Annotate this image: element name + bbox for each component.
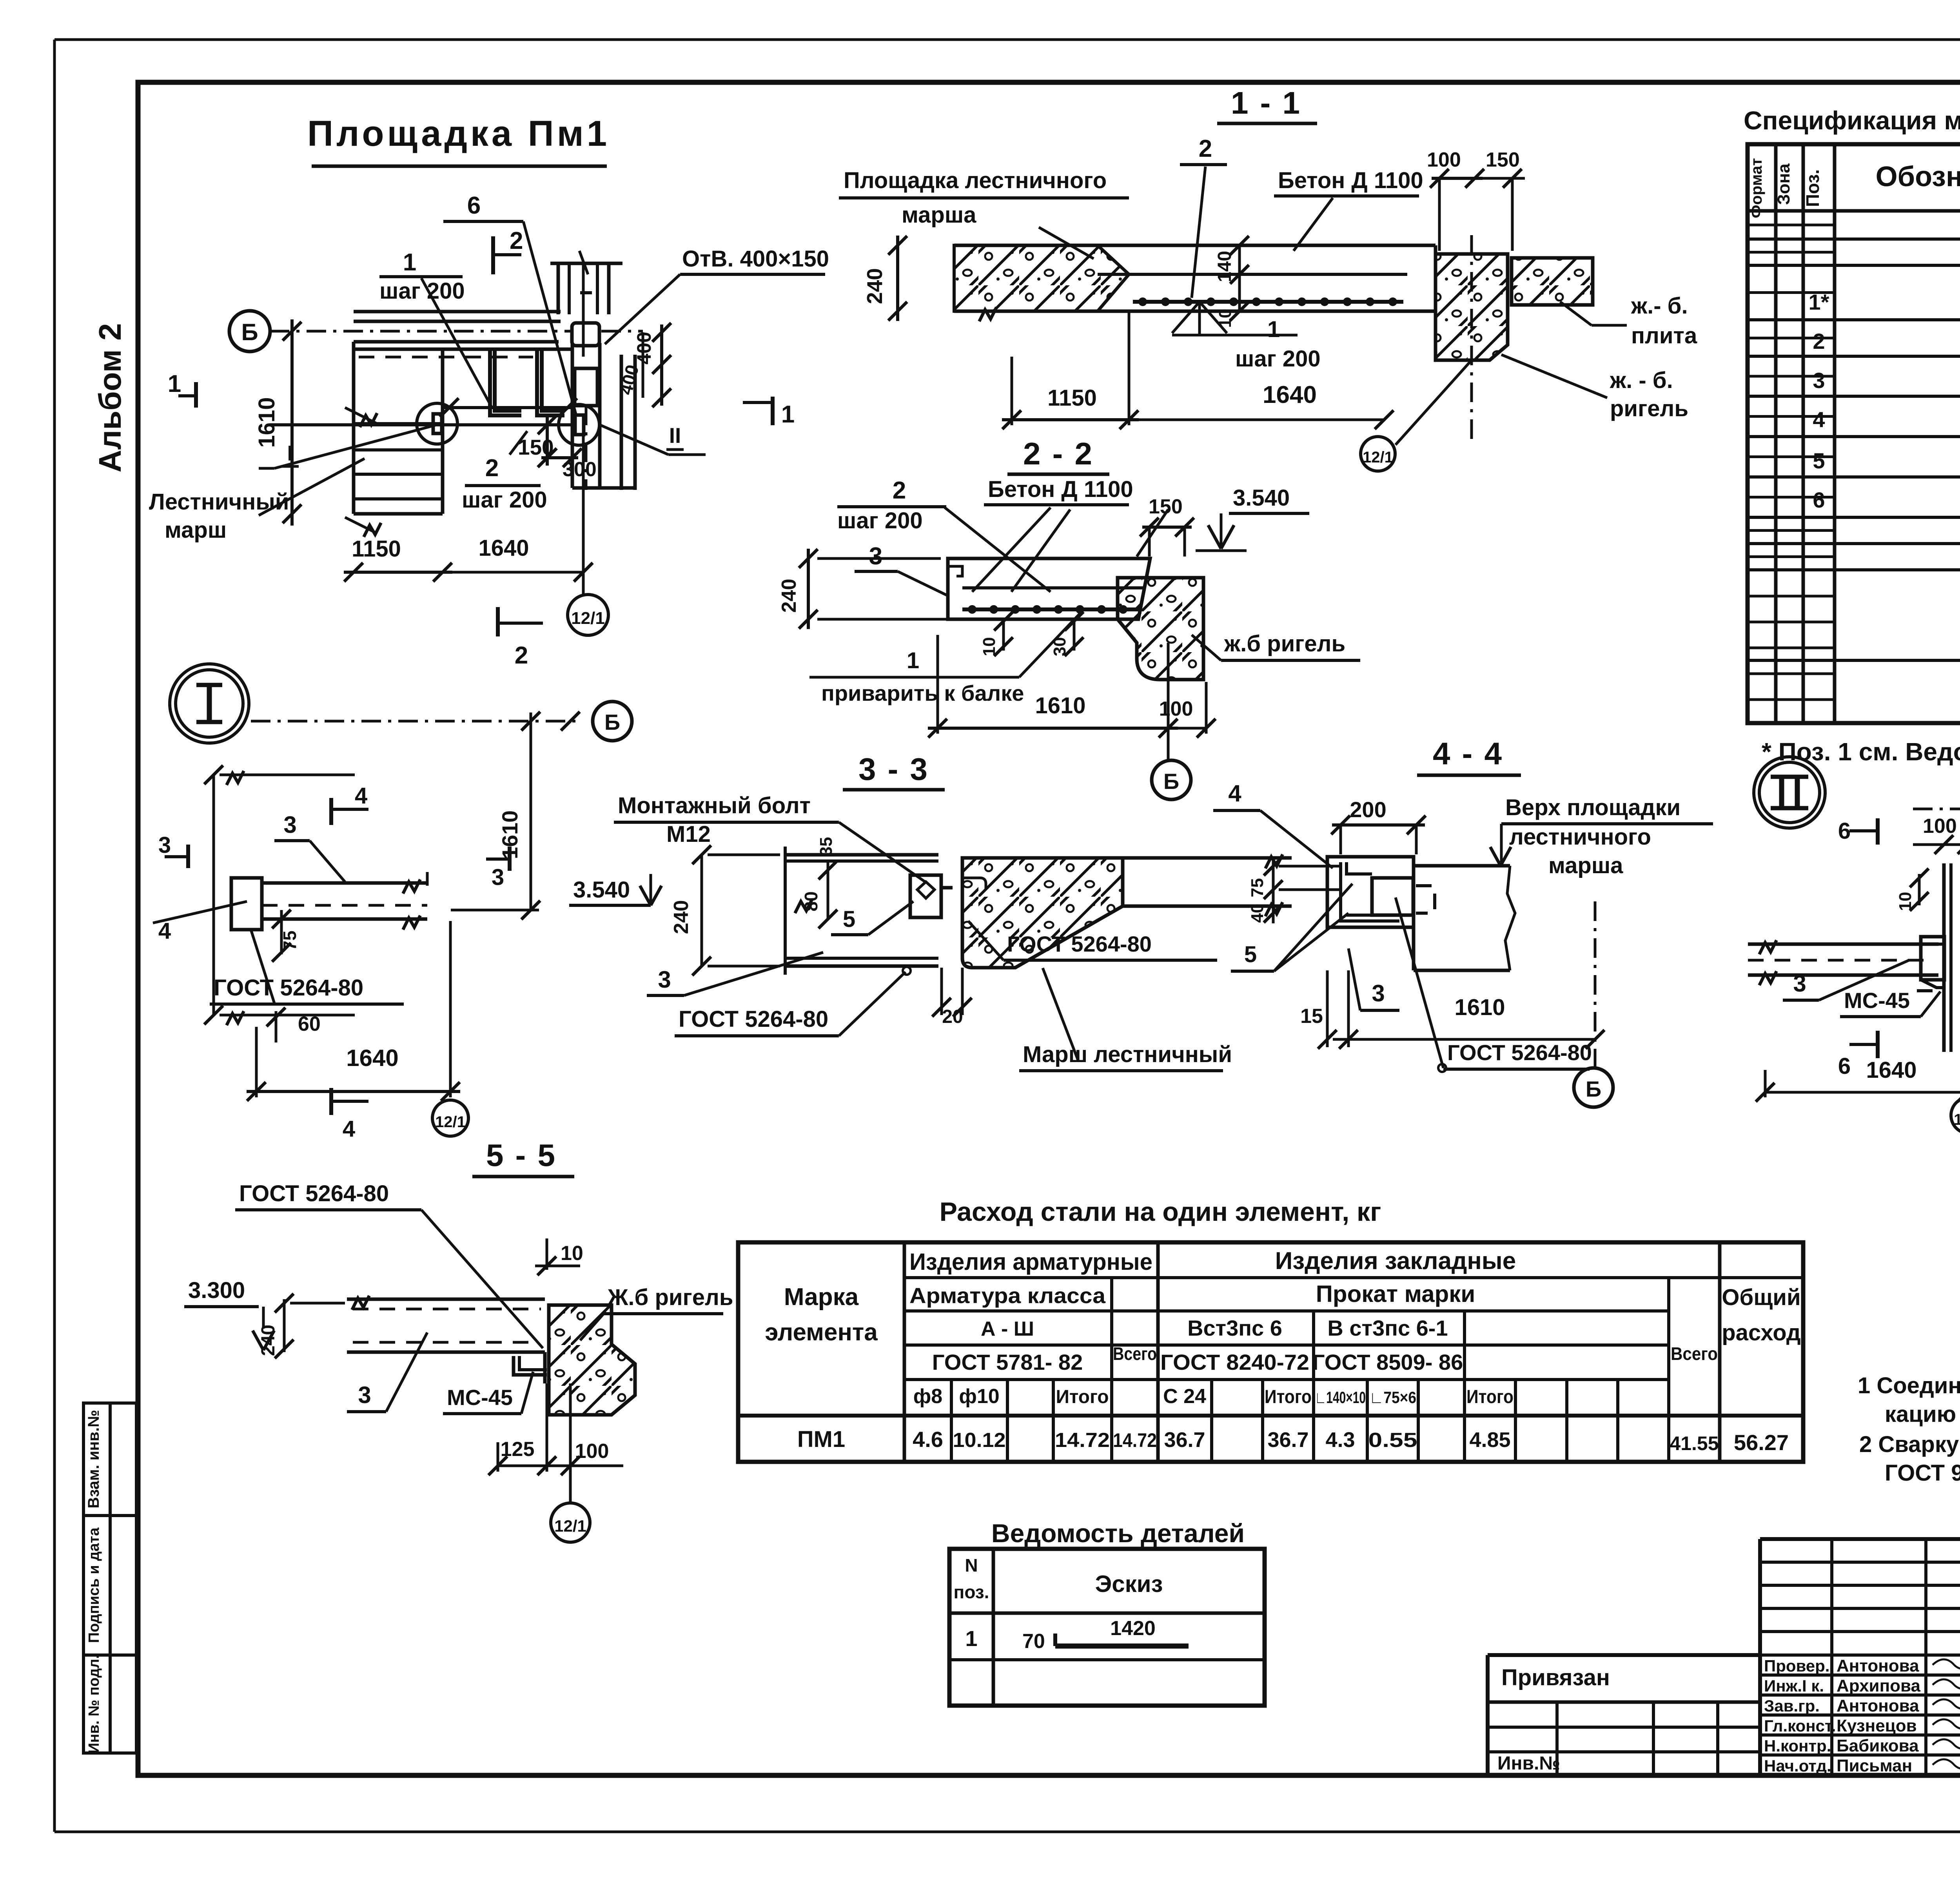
svg-text:56.27: 56.27 (1734, 1430, 1789, 1455)
svg-text:элемента: элемента (765, 1319, 878, 1346)
svg-text:3: 3 (492, 865, 504, 890)
svg-text:6: 6 (1838, 1053, 1851, 1079)
svg-text:12/1: 12/1 (1954, 1111, 1960, 1128)
svg-text:ГОСТ 5264-80: ГОСТ 5264-80 (1007, 932, 1152, 956)
svg-text:4: 4 (343, 1116, 355, 1142)
svg-text:Ведомость деталей: Ведомость деталей (991, 1519, 1245, 1548)
svg-text:2 - 2: 2 - 2 (1023, 436, 1094, 471)
svg-text:лестничного: лестничного (1509, 824, 1651, 850)
svg-text:12/1: 12/1 (554, 1517, 586, 1535)
svg-text:кацию на месте.: кацию на месте. (1885, 1401, 1960, 1427)
svg-text:1: 1 (781, 401, 795, 428)
svg-text:Инж.I к.: Инж.I к. (1764, 1677, 1824, 1695)
svg-text:М12: М12 (666, 821, 711, 847)
svg-text:Б: Б (241, 319, 258, 345)
svg-text:1 Соединительный элемент МС-: 1 Соединительный элемент МС-45 см специф… (1858, 1373, 1960, 1398)
svg-text:5: 5 (1813, 448, 1825, 473)
svg-text:Формат: Формат (1748, 158, 1765, 218)
svg-text:Н.контр.: Н.контр. (1764, 1737, 1831, 1755)
svg-text:5: 5 (1244, 942, 1257, 967)
svg-text:14.72: 14.72 (1055, 1429, 1110, 1452)
svg-text:3.540: 3.540 (573, 877, 630, 903)
svg-text:Марка: Марка (784, 1284, 859, 1311)
svg-text:1610: 1610 (254, 397, 279, 448)
svg-text:плита: плита (1631, 323, 1697, 348)
svg-text:Монтажный болт: Монтажный болт (618, 793, 811, 818)
svg-text:Верх площадки: Верх площадки (1505, 795, 1681, 820)
svg-text:10: 10 (1896, 892, 1915, 911)
svg-text:ГОСТ 5264-80: ГОСТ 5264-80 (239, 1181, 389, 1206)
svg-text:1610: 1610 (1035, 693, 1085, 718)
svg-text:2 Сварку производить электро: 2 Сварку производить электродами типа Э4… (1859, 1432, 1960, 1457)
svg-text:3.540: 3.540 (1233, 485, 1290, 511)
svg-text:41.55: 41.55 (1670, 1432, 1719, 1454)
svg-text:200: 200 (1350, 797, 1386, 822)
svg-text:Прокат марки: Прокат марки (1316, 1281, 1475, 1307)
svg-text:0.55: 0.55 (1368, 1429, 1417, 1452)
svg-text:В ст3пс 6-1: В ст3пс 6-1 (1327, 1316, 1448, 1340)
svg-text:4: 4 (1813, 407, 1825, 432)
svg-text:6: 6 (1813, 488, 1825, 512)
svg-text:6: 6 (1838, 818, 1851, 844)
svg-text:Итого: Итого (1056, 1387, 1109, 1407)
svg-text:1610: 1610 (497, 810, 522, 859)
svg-text:4: 4 (355, 783, 367, 809)
svg-text:4.6: 4.6 (913, 1427, 943, 1452)
svg-text:Письман: Письман (1837, 1756, 1912, 1775)
svg-text:10: 10 (561, 1242, 583, 1265)
svg-text:5: 5 (843, 906, 855, 932)
svg-text:ГОСТ 9467-75.: ГОСТ 9467-75. (1885, 1460, 1960, 1486)
svg-text:1: 1 (1267, 317, 1280, 342)
svg-text:Зав.гр.: Зав.гр. (1764, 1697, 1820, 1715)
svg-text:80: 80 (801, 891, 821, 911)
svg-text:Площадка Пм1: Площадка Пм1 (307, 114, 610, 154)
svg-text:расход: расход (1722, 1320, 1800, 1345)
svg-text:Ж.б ригель: Ж.б ригель (607, 1285, 733, 1310)
svg-text:1640: 1640 (478, 535, 529, 561)
svg-text:12/1: 12/1 (571, 609, 605, 628)
svg-text:* Поз. 1 см. Ведомость детал: * Поз. 1 см. Ведомость деталей (1762, 738, 1960, 766)
svg-text:240: 240 (862, 268, 887, 304)
svg-text:Всего: Всего (1113, 1343, 1157, 1364)
svg-text:приварить к балке: приварить к балке (821, 681, 1024, 705)
svg-text:Вст3пс 6: Вст3пс 6 (1187, 1316, 1282, 1340)
svg-text:Б: Б (604, 710, 620, 734)
svg-text:А - Ш: А - Ш (981, 1318, 1034, 1340)
svg-text:Антонова: Антонова (1837, 1696, 1919, 1715)
svg-text:ф10: ф10 (959, 1385, 999, 1408)
svg-text:240: 240 (778, 579, 800, 613)
svg-text:2: 2 (515, 642, 528, 669)
svg-text:Кузнецов: Кузнецов (1837, 1716, 1917, 1735)
svg-text:1150: 1150 (1047, 385, 1097, 411)
svg-text:Спецификация монолитной ж-Б: Спецификация монолитной ж-Б лестничной п… (1744, 106, 1960, 135)
svg-text:Нач.отд.: Нач.отд. (1764, 1757, 1831, 1775)
svg-text:ГОСТ 8509- 86: ГОСТ 8509- 86 (1312, 1350, 1463, 1374)
svg-text:100: 100 (1923, 815, 1957, 838)
svg-text:шаг 200: шаг 200 (462, 487, 547, 513)
svg-text:ригель: ригель (1610, 396, 1688, 421)
svg-text:1640: 1640 (1866, 1057, 1916, 1083)
svg-text:ОтВ. 400×150: ОтВ. 400×150 (682, 246, 829, 272)
svg-text:4.85: 4.85 (1469, 1428, 1510, 1452)
svg-text:30: 30 (1050, 637, 1069, 656)
svg-text:3: 3 (358, 1382, 371, 1408)
svg-text:МС-45: МС-45 (1844, 988, 1910, 1013)
svg-text:Всего: Всего (1671, 1343, 1718, 1364)
svg-text:70: 70 (1022, 1630, 1045, 1653)
svg-text:36.7: 36.7 (1164, 1428, 1205, 1452)
svg-text:60: 60 (298, 1013, 321, 1035)
svg-text:Инв.№: Инв.№ (1497, 1753, 1560, 1774)
svg-text:Марш лестничный: Марш лестничный (1023, 1042, 1232, 1067)
svg-text:100: 100 (575, 1440, 609, 1463)
svg-text:240: 240 (258, 1325, 279, 1356)
svg-text:Подпись и дата: Подпись и дата (86, 1527, 102, 1643)
svg-text:шаг 200: шаг 200 (837, 508, 923, 533)
svg-text:75: 75 (1248, 878, 1267, 897)
svg-text:36.7: 36.7 (1267, 1428, 1308, 1452)
svg-text:ПМ1: ПМ1 (797, 1427, 845, 1452)
svg-text:240: 240 (670, 900, 693, 934)
svg-text:3: 3 (1813, 368, 1825, 393)
svg-text:ж.- б.: ж.- б. (1631, 293, 1688, 319)
svg-text:Общий: Общий (1722, 1285, 1800, 1310)
svg-text:3: 3 (1372, 980, 1385, 1006)
svg-text:Бабикова: Бабикова (1837, 1736, 1919, 1755)
svg-text:∟75×6: ∟75×6 (1369, 1388, 1416, 1407)
svg-text:150: 150 (1486, 149, 1520, 171)
svg-text:14.72: 14.72 (1113, 1429, 1157, 1451)
svg-text:15: 15 (1300, 1005, 1323, 1028)
svg-text:10: 10 (1216, 309, 1235, 328)
svg-text:2: 2 (1199, 135, 1212, 162)
svg-text:1: 1 (168, 370, 181, 397)
svg-text:Б: Б (1163, 769, 1179, 794)
svg-text:1: 1 (907, 648, 919, 673)
svg-text:4.3: 4.3 (1325, 1428, 1355, 1452)
svg-text:140: 140 (1214, 251, 1235, 282)
svg-text:3.300: 3.300 (188, 1278, 245, 1303)
svg-text:Поз.: Поз. (1802, 169, 1823, 207)
svg-text:Взам. инв.№: Взам. инв.№ (85, 1410, 102, 1508)
svg-text:1420: 1420 (1110, 1617, 1156, 1640)
svg-text:1*: 1* (1809, 290, 1829, 314)
svg-text:Бетон Д 1100: Бетон Д 1100 (988, 477, 1133, 502)
svg-text:Изделия закладные: Изделия закладные (1275, 1247, 1516, 1275)
svg-text:Б: Б (1586, 1077, 1601, 1101)
svg-text:Антонова: Антонова (1837, 1656, 1919, 1675)
svg-text:3: 3 (658, 966, 671, 993)
svg-text:150: 150 (1149, 495, 1183, 518)
svg-text:4: 4 (1228, 780, 1241, 807)
svg-text:1: 1 (403, 249, 416, 276)
svg-text:1: 1 (965, 1626, 977, 1651)
svg-text:10: 10 (980, 637, 999, 656)
svg-text:шаг 200: шаг 200 (1235, 346, 1321, 372)
svg-text:10.12: 10.12 (953, 1429, 1006, 1452)
svg-text:5 - 5: 5 - 5 (486, 1138, 557, 1173)
svg-text:3 - 3: 3 - 3 (858, 752, 929, 787)
svg-text:Эскиз: Эскиз (1095, 1571, 1163, 1597)
svg-text:3: 3 (283, 812, 296, 838)
svg-text:Провер.: Провер. (1764, 1657, 1829, 1675)
svg-text:Арматура класса: Арматура класса (909, 1283, 1106, 1308)
svg-text:2: 2 (1813, 329, 1825, 354)
svg-text:1150: 1150 (352, 536, 401, 562)
svg-text:1640: 1640 (346, 1045, 398, 1071)
svg-text:Изделия арматурные: Изделия арматурные (909, 1249, 1152, 1275)
svg-text:II: II (669, 423, 681, 448)
svg-text:N: N (965, 1555, 978, 1575)
svg-text:1 - 1: 1 - 1 (1231, 85, 1301, 120)
svg-text:ГОСТ 5264-80: ГОСТ 5264-80 (214, 975, 363, 1001)
svg-text:МС-45: МС-45 (447, 1385, 513, 1410)
svg-text:12/1: 12/1 (1363, 449, 1393, 466)
svg-text:100: 100 (1427, 149, 1461, 171)
svg-text:Итого: Итого (1265, 1387, 1312, 1407)
svg-text:4 - 4: 4 - 4 (1433, 736, 1503, 771)
svg-text:С 24: С 24 (1163, 1385, 1206, 1408)
svg-text:ГОСТ 8240-72: ГОСТ 8240-72 (1160, 1350, 1309, 1374)
svg-text:1640: 1640 (1263, 381, 1317, 408)
svg-text:35: 35 (817, 837, 836, 856)
svg-text:марш: марш (165, 517, 227, 543)
svg-text:поз.: поз. (954, 1582, 989, 1602)
svg-text:40: 40 (1248, 904, 1267, 923)
svg-text:ГОСТ 5781- 82: ГОСТ 5781- 82 (932, 1350, 1083, 1374)
svg-text:Итого: Итого (1466, 1387, 1514, 1407)
svg-text:12/1: 12/1 (435, 1113, 466, 1131)
svg-text:ж.б ригель: ж.б ригель (1224, 631, 1345, 656)
svg-text:Альбом 2: Альбом 2 (93, 323, 127, 473)
svg-text:марша: марша (1548, 853, 1623, 878)
svg-text:Бетон Д 1100: Бетон Д 1100 (1278, 168, 1423, 193)
svg-text:3: 3 (1793, 970, 1806, 997)
svg-text:Зона: Зона (1774, 163, 1793, 205)
svg-text:1610: 1610 (1454, 995, 1505, 1020)
svg-text:ГОСТ 5264-80: ГОСТ 5264-80 (1447, 1040, 1592, 1065)
svg-text:Площадка лестничного: Площадка лестничного (844, 168, 1107, 193)
svg-text:Архипова: Архипова (1837, 1676, 1921, 1695)
svg-text:2: 2 (485, 455, 499, 482)
svg-text:400: 400 (633, 332, 655, 364)
svg-text:Инв. № подл.: Инв. № подл. (86, 1655, 102, 1753)
svg-text:3: 3 (158, 832, 171, 858)
svg-text:3: 3 (869, 543, 882, 570)
svg-text:2: 2 (893, 477, 906, 504)
svg-text:Гл.конст.: Гл.конст. (1764, 1717, 1836, 1735)
svg-text:ГОСТ 5264-80: ГОСТ 5264-80 (679, 1006, 828, 1032)
svg-text:75: 75 (279, 930, 300, 950)
svg-text:2: 2 (510, 227, 523, 254)
svg-text:Привязан: Привязан (1501, 1665, 1610, 1690)
svg-text:Расход стали на один элемент,: Расход стали на один элемент, кг (940, 1197, 1381, 1227)
svg-text:ф8: ф8 (913, 1385, 942, 1408)
svg-text:Обозначение: Обозначение (1876, 161, 1960, 192)
svg-text:∟140×10: ∟140×10 (1315, 1388, 1366, 1407)
svg-text:6: 6 (467, 192, 481, 219)
svg-text:100: 100 (1159, 698, 1193, 720)
svg-text:марша: марша (902, 202, 976, 228)
svg-text:ж. - б.: ж. - б. (1610, 368, 1673, 393)
